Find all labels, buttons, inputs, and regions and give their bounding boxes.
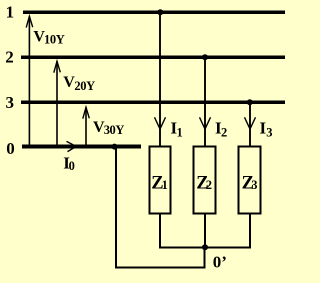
current arrow I3 head xyxy=(245,117,256,129)
label I0 xyxy=(63,153,75,173)
svg-text:20Y: 20Y xyxy=(74,79,95,93)
voltage arrow V10Y head xyxy=(26,16,33,27)
node label 0 xyxy=(6,139,15,158)
label 0' xyxy=(213,253,227,272)
wire star-point bus from Z1 to Z3 xyxy=(160,213,250,247)
svg-text:1: 1 xyxy=(162,178,168,192)
svg-text:0’: 0’ xyxy=(213,253,227,272)
wire branch 3 vertical xyxy=(249,102,251,146)
current arrow I1 head xyxy=(155,117,166,129)
wire phase line 3 xyxy=(21,101,285,105)
svg-text:10Y: 10Y xyxy=(44,32,65,46)
label Z1 xyxy=(151,173,168,193)
voltage arrow V10Y shaft xyxy=(28,16,30,144)
label Z3 xyxy=(242,173,258,193)
svg-text:2: 2 xyxy=(5,48,14,67)
label Z2 xyxy=(196,173,212,193)
label I3 xyxy=(260,119,273,140)
impedance Z2 box xyxy=(193,147,215,214)
label V20Y xyxy=(63,74,95,93)
svg-text:1: 1 xyxy=(177,126,183,140)
node label 1 xyxy=(6,3,15,22)
svg-text:2: 2 xyxy=(206,178,212,192)
label V30Y xyxy=(93,119,124,137)
svg-text:3: 3 xyxy=(251,178,257,192)
wire neutral return xyxy=(116,147,205,268)
svg-text:2: 2 xyxy=(221,126,227,140)
label V10Y xyxy=(33,29,64,47)
wire branch 1 vertical xyxy=(159,12,161,146)
node label 2 xyxy=(5,48,14,67)
svg-text:30Y: 30Y xyxy=(104,123,125,137)
svg-text:0: 0 xyxy=(6,139,15,158)
voltage arrow V20Y head xyxy=(54,61,61,72)
svg-text:3: 3 xyxy=(6,93,15,112)
node dot on line 0 xyxy=(112,144,118,150)
wire Z2 riser to star point xyxy=(204,213,206,247)
impedance Z1 box xyxy=(149,147,170,214)
voltage arrow V30Y head xyxy=(83,107,90,118)
node label 3 xyxy=(6,93,15,112)
svg-text:3: 3 xyxy=(266,126,272,140)
wire neutral line 0 xyxy=(22,145,141,149)
wire phase line 2 xyxy=(21,55,285,59)
impedance Z3 box xyxy=(238,147,260,214)
label I1 xyxy=(171,119,183,140)
wire branch 2 vertical xyxy=(204,57,206,146)
svg-text:V: V xyxy=(63,74,75,91)
node dot on line 3 xyxy=(247,99,253,105)
svg-text:1: 1 xyxy=(6,3,15,22)
current arrow I2 head xyxy=(200,117,211,129)
label I2 xyxy=(215,119,227,140)
svg-text:0: 0 xyxy=(69,159,75,173)
node dot on line 1 xyxy=(157,9,163,15)
node dot 0' star point xyxy=(202,244,208,250)
current arrow I0 head on line 0 xyxy=(67,141,77,151)
node dot on line 2 xyxy=(202,54,208,60)
wire phase line 1 xyxy=(23,10,285,14)
voltage arrow V20Y shaft xyxy=(56,61,58,144)
voltage arrow V30Y shaft xyxy=(85,107,87,144)
